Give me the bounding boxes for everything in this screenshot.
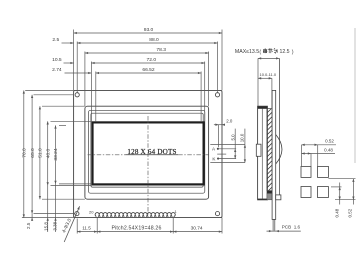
bezel side profile: [258, 106, 268, 200]
svg-text:15.8: 15.8: [44, 222, 49, 231]
svg-text:72.0: 72.0: [147, 57, 157, 63]
mounting hole bottom-right: [215, 212, 219, 216]
svg-text:0.48: 0.48: [335, 208, 340, 217]
svg-text:2.0: 2.0: [226, 118, 233, 123]
PCB outline front view: [74, 90, 222, 217]
svg-text:3.38: 3.38: [53, 221, 58, 230]
pad leader lines: [218, 148, 236, 150]
pad square bottom-right: [318, 187, 329, 198]
svg-text:66.52: 66.52: [142, 67, 155, 73]
extension lines bottom: [76, 219, 78, 234]
svg-text:30.74: 30.74: [191, 225, 203, 231]
svg-text:0.52: 0.52: [325, 139, 334, 144]
pad square top-left: [301, 166, 311, 177]
svg-text:20: 20: [89, 209, 94, 214]
svg-text:2.74: 2.74: [52, 67, 62, 73]
bezel inner line A: [89, 110, 205, 193]
viewing area window: [93, 122, 204, 184]
svg-text:5.0: 5.0: [231, 134, 236, 141]
svg-text:2.5: 2.5: [26, 222, 31, 229]
vertical centerline dashed: [147, 116, 149, 216]
A K separator lines: [210, 144, 245, 146]
svg-text:0.52: 0.52: [348, 208, 353, 217]
mounting hole bottom-left: [75, 212, 79, 216]
svg-text:PCB 1.6: PCB 1.6: [282, 224, 301, 229]
mounting hole top-left: [75, 93, 79, 97]
svg-text:Pitch2.54X19=48.26: Pitch2.54X19=48.26: [111, 225, 161, 231]
svg-text:): ): [292, 49, 294, 55]
svg-text:70.0: 70.0: [22, 148, 28, 158]
svg-text:33.24: 33.24: [53, 148, 59, 161]
PCB side bar: [272, 90, 276, 219]
bezel inner line B: [91, 113, 203, 187]
svg-text:10.5: 10.5: [52, 57, 62, 63]
svg-text:10.0-11.0: 10.0-11.0: [259, 72, 276, 77]
extension lines left: [25, 89, 73, 91]
svg-text:51.0: 51.0: [38, 148, 44, 158]
bezel outer frame: [85, 106, 209, 199]
svg-text:2.5: 2.5: [52, 37, 59, 43]
svg-text:(: (: [259, 49, 261, 55]
svg-text:40.0: 40.0: [45, 148, 51, 158]
svg-text:10.0: 10.0: [239, 133, 244, 142]
dimension line max thickness: [258, 57, 279, 59]
pin header tab right: [276, 195, 281, 200]
svg-text:MAX≤13.5: MAX≤13.5: [235, 49, 259, 55]
dimension 10.0: [244, 129, 246, 163]
pad square bottom-left: [301, 187, 311, 198]
svg-text:11.5: 11.5: [82, 225, 91, 230]
pin below PCB: [272, 219, 274, 230]
leader 4-phi3.0 mounting holes: [64, 206, 79, 242]
extension lines top: [73, 30, 75, 91]
bezel top cap: [258, 106, 268, 108]
page border fragment right: [354, 28, 356, 163]
svg-text:65.0: 65.0: [30, 148, 36, 158]
gray block backlight base: [267, 193, 272, 199]
side tab left: [256, 144, 261, 156]
svg-text:88.0: 88.0: [149, 37, 159, 43]
LCD cross-section hatched: [267, 109, 272, 191]
svg-text:0.48: 0.48: [324, 147, 333, 152]
component bulge arc: [276, 135, 282, 165]
dimension 5.0: [234, 129, 236, 159]
svg-text:78.3: 78.3: [156, 47, 166, 53]
horizontal centerline dashed: [88, 154, 126, 156]
pad square top-right: [318, 166, 329, 177]
dimension 0.52 pads right: [328, 178, 355, 180]
svg-text:12.5: 12.5: [279, 49, 289, 55]
mounting hole top-right: [215, 93, 219, 97]
dimension 0.48 pads right: [331, 186, 342, 188]
bezel bottom cap: [258, 199, 268, 200]
dark cap under hatch: [267, 191, 272, 194]
dimension PCB 1.6: [267, 230, 301, 232]
svg-text:93.0: 93.0: [144, 27, 154, 33]
back surface line: [279, 58, 281, 199]
pin row 20 half-round pads: [95, 213, 175, 217]
